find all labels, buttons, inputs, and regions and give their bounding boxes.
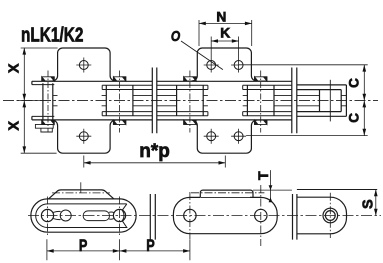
svg-text:O: O (171, 28, 181, 45)
n*p dimension (84, 156, 226, 168)
svg-text:X: X (7, 63, 23, 73)
svg-text:X: X (7, 121, 23, 131)
left chain end cap (31, 81, 33, 120)
pin 3 vertical centerline (189, 192, 191, 239)
N dimension (199, 20, 252, 46)
roller band centerline (191, 192, 264, 194)
roller silhouette line / S extension (297, 189, 377, 191)
attachment A top flange (52, 48, 115, 81)
middle link pin circles (184, 209, 196, 221)
pin 5 vertical centerline (329, 193, 331, 238)
right section roller (320, 90, 342, 112)
pin 4 centerline (260, 71, 262, 133)
right section pin 5 (329, 80, 331, 122)
clip pin vertical centerlines (48, 197, 120, 236)
C extension line bottom (246, 135, 368, 137)
bushing lines bottom (53, 105, 347, 107)
spring clip fork arc (122, 210, 124, 220)
svg-text:P: P (146, 236, 154, 255)
pin 1 centerline (47, 71, 49, 133)
attachment bend side view (49, 190, 114, 199)
attachment A hole top (76, 58, 91, 73)
svg-text:nLK1/K2: nLK1/K2 (21, 23, 83, 45)
bushing lines top (53, 94, 347, 96)
clip link outer plate (31, 199, 136, 232)
break lines 1 (top view) (152, 68, 157, 134)
spring clip outline (36, 204, 127, 228)
attachment B top flange (192, 48, 257, 81)
K dimension (211, 40, 238, 42)
attachment B holes bottom (204, 129, 246, 144)
left end bar lines (32, 85, 54, 117)
middle link roller band (200, 190, 253, 197)
attachment B bottom flange (192, 120, 257, 153)
washers at pin 4 (255, 77, 267, 125)
P dimensions (47, 239, 190, 260)
svg-text:C: C (347, 78, 362, 88)
plate bar lines top (102, 85, 292, 89)
washers at pin 1 (42, 77, 54, 125)
plate bar end steps (102, 85, 243, 116)
pin 3 centerline (189, 71, 191, 133)
break lines 2 (top view) (292, 68, 297, 134)
break lines 1 (bottom view) (150, 194, 155, 240)
roller at pin 3 (177, 85, 204, 116)
attachment A hole bottom (76, 129, 91, 144)
washers at pin 3 (184, 77, 196, 125)
right section plate bars (297, 85, 347, 116)
right chain end edge (345, 85, 347, 116)
S dimension (375, 190, 377, 216)
pin 4 vertical centerline (260, 185, 262, 246)
attachment B holes top (204, 37, 243, 73)
attachment hole position mark (80, 182, 82, 193)
C extension line top (239, 64, 368, 66)
left pin end washer bottom (35, 124, 53, 132)
chain centerline (top view) (3, 100, 378, 102)
pin 2 centerline (119, 71, 121, 133)
right end link plate (297, 197, 347, 234)
svg-text:C: C (347, 113, 362, 123)
attachment flange centerline side view (52, 192, 110, 194)
svg-text:N: N (216, 9, 226, 24)
break lines 2 (bottom view) (293, 194, 297, 240)
plate bar lines bottom (102, 112, 292, 116)
roller at pin 4 (247, 85, 274, 116)
attachment A bottom flange (52, 120, 115, 153)
washers at pin 2 (113, 77, 125, 125)
roller band top extension line (253, 189, 292, 191)
middle outer link plate (173, 197, 277, 233)
right link pin circles (325, 211, 335, 221)
outer plate edge lines bottom (32, 119, 292, 121)
svg-text:n*p: n*p (139, 141, 170, 162)
clip slot neck to pin (109, 212, 114, 219)
outer plate edge lines top (32, 80, 292, 82)
clip bone (53, 211, 60, 219)
clip pin circle right (113, 209, 125, 221)
left pin end bush (43, 83, 53, 121)
svg-text:T: T (256, 171, 272, 180)
bottom view centerline (28, 215, 381, 217)
roller at pin 2 (106, 85, 133, 116)
svg-text:P: P (79, 236, 87, 255)
svg-text:S: S (360, 199, 376, 209)
X dimension line (23, 48, 25, 101)
svg-text:K: K (220, 26, 230, 41)
C dimension line (363, 65, 365, 101)
clip pin circle left (41, 209, 53, 221)
clip slot (83, 211, 109, 221)
X extension lines (17, 48, 58, 153)
